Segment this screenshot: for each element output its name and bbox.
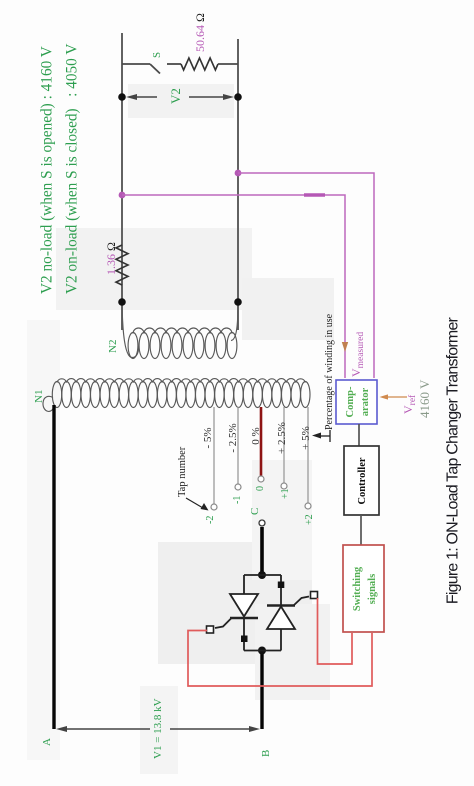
svg-text:V2: V2 xyxy=(168,88,183,104)
wire comparator-controller xyxy=(358,424,360,446)
V2 arrow up xyxy=(126,94,157,100)
resistor 1.36 ohm xyxy=(116,245,128,285)
switch S xyxy=(122,64,181,74)
wire B (thick) xyxy=(260,650,263,729)
red gate wire Q1 xyxy=(188,631,372,687)
controller box xyxy=(344,446,379,515)
svg-text:Controller: Controller xyxy=(357,457,368,504)
tap terminal -1 xyxy=(235,484,241,490)
junction right xyxy=(258,571,266,579)
wire branch frame xyxy=(244,575,281,651)
wire controller-switching xyxy=(360,515,362,545)
top rail xyxy=(121,33,123,330)
terminal square upper branch xyxy=(241,636,248,643)
wire A (thick) xyxy=(52,405,55,729)
terminal square lower branch xyxy=(278,582,285,589)
svg-text:Figure 1: ON-Load Tap Changer: Figure 1: ON-Load Tap Changer Transforme… xyxy=(445,316,462,604)
V2 dot top xyxy=(118,93,126,101)
sense wire from top rail xyxy=(122,195,345,378)
resistor 50.64 ohm xyxy=(181,58,218,70)
wire C (thick) xyxy=(260,527,264,575)
gate terminal Q1 xyxy=(207,626,214,633)
small arrow on sense wire xyxy=(342,342,348,352)
sense tap bottom rail xyxy=(235,170,242,177)
comparator box U1 xyxy=(336,380,377,424)
Vref arrow xyxy=(380,394,408,399)
tap lead +5% xyxy=(307,407,309,503)
svg-text:Switching: Switching xyxy=(352,566,363,611)
V2 dot bottom xyxy=(234,93,242,101)
svg-text:V2 on-load (when S is closed): V2 on-load (when S is closed) : 4050 V xyxy=(64,44,81,294)
sense tap top rail xyxy=(119,192,126,199)
tap lead -5% xyxy=(213,407,215,504)
gate terminal Q2 xyxy=(311,592,318,599)
V2 arrow down xyxy=(189,94,234,100)
tap terminal 0 xyxy=(258,476,264,482)
thyristor Q1 (upper, points left) xyxy=(215,594,258,628)
svg-text:V2 no-load (when S is opened): V2 no-load (when S is opened) : 4160 V xyxy=(39,46,56,294)
tap terminal +1 xyxy=(281,483,287,489)
svg-text:-1: -1 xyxy=(232,496,243,504)
svg-text:0: 0 xyxy=(255,486,266,491)
svg-text:+2: +2 xyxy=(304,514,315,525)
svg-text:-2: -2 xyxy=(205,516,216,524)
svg-text:B: B xyxy=(260,750,272,757)
svg-text:C: C xyxy=(249,508,261,515)
svg-text:- 5%: - 5% xyxy=(202,427,214,448)
bold dash on sense wire xyxy=(304,193,325,196)
svg-text:1.36 Ω: 1.36 Ω xyxy=(104,242,118,275)
svg-text:arator: arator xyxy=(360,387,371,416)
bottom rail xyxy=(237,39,239,330)
V1 arrow upper xyxy=(56,726,150,732)
svg-text:S: S xyxy=(151,52,163,58)
svg-text:- 2.5%: - 2.5% xyxy=(227,423,239,452)
svg-text:+1: +1 xyxy=(280,488,291,499)
red gate wire Q2 xyxy=(318,598,353,664)
tap terminal -2 xyxy=(211,504,217,510)
svg-text:N1: N1 xyxy=(33,390,45,403)
junction dot top xyxy=(118,298,126,306)
svg-text:A: A xyxy=(41,738,53,746)
winding N1 xyxy=(43,379,310,412)
svg-text:Percentage of winding in use: Percentage of winding in use xyxy=(324,313,335,430)
sense wire from bottom rail xyxy=(238,173,374,378)
svg-text:+ 5%: + 5% xyxy=(300,426,312,450)
svg-text:50.64 Ω: 50.64 Ω xyxy=(193,13,207,52)
svg-text:N2: N2 xyxy=(107,340,119,353)
tap C terminal xyxy=(259,520,265,526)
svg-text:+ 2.5%: + 2.5% xyxy=(276,422,288,454)
junction left xyxy=(258,647,266,655)
tap lead -2.5% xyxy=(237,407,239,484)
V1 arrow lower xyxy=(170,726,260,732)
svg-text:Comp-: Comp- xyxy=(345,386,356,417)
tap lead +2.5% xyxy=(283,407,285,483)
thyristor Q2 (lower, points right) xyxy=(267,597,309,630)
tap terminal +2 xyxy=(305,503,311,509)
tap lead 0% (in use, dark red) xyxy=(260,407,263,476)
bracket arrow winding in use xyxy=(312,430,330,442)
svg-text:signals: signals xyxy=(367,574,378,604)
svg-text:0 %: 0 % xyxy=(250,427,262,444)
svg-text:V1 = 13.8 kV: V1 = 13.8 kV xyxy=(152,698,164,759)
arrow to tap -2 xyxy=(186,498,209,511)
switching signals box xyxy=(343,545,384,632)
junction dot bottom xyxy=(234,298,242,306)
winding N2 xyxy=(122,302,238,359)
svg-text:4160 V: 4160 V xyxy=(417,379,432,418)
svg-text:Tap number: Tap number xyxy=(177,446,188,497)
